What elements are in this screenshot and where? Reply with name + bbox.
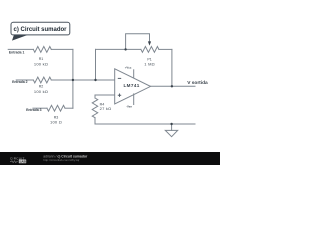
svg-text:V sortida: V sortida [187, 80, 208, 86]
wire vertical R1-bus-R3 [72, 49, 74, 108]
P1 wiper arrow [148, 41, 151, 45]
wire P1 right to corner [159, 48, 172, 50]
svg-text:27 kΩ: 27 kΩ [100, 106, 112, 111]
ground symbol [165, 130, 177, 136]
wire bus to op-amp minus input [51, 79, 114, 81]
node ground junction [170, 123, 172, 125]
footer logo zigzag [10, 161, 18, 163]
wire feedback riser [95, 49, 97, 80]
resistor R2 [33, 77, 51, 83]
svg-text:c) Circuit sumador: c) Circuit sumador [14, 27, 68, 33]
footer logo LAB [19, 160, 26, 164]
node P1 loop junction [124, 48, 126, 50]
svg-text:http://circuitlab.com/c8iy1qr: http://circuitlab.com/c8iy1qr [43, 158, 79, 162]
svg-text:1 MΩ: 1 MΩ [144, 62, 155, 67]
wire op-amp plus input [95, 94, 115, 96]
wire R4 bottom stub [94, 118, 96, 124]
op-amp U1 triangle [115, 69, 151, 104]
svg-text:LM741: LM741 [123, 83, 139, 88]
node output-feedback junction [171, 85, 173, 87]
wire R4 top stub [94, 95, 96, 98]
wire feedback down to output [171, 49, 173, 86]
op-amp plus pin glyph [118, 94, 121, 97]
resistor R1 [33, 47, 51, 53]
node R1-bus junction [72, 79, 74, 81]
wire output [151, 85, 196, 87]
svg-text:-Vee: -Vee [126, 105, 132, 109]
svg-text:Entrada 1: Entrada 1 [9, 51, 25, 55]
svg-text:LAB: LAB [20, 160, 27, 164]
footer bar [0, 152, 220, 165]
wire entrada3 lead [33, 107, 47, 109]
svg-text:100 kΩ: 100 kΩ [34, 61, 48, 66]
svg-text:100 kΩ: 100 kΩ [34, 89, 48, 94]
callout box c) Circuit sumador [11, 22, 70, 35]
wire R1 right to corner [51, 48, 73, 50]
op-amp +Vcc stub [133, 70, 135, 78]
ground stub [171, 124, 173, 130]
svg-text:Entrada 3: Entrada 3 [26, 108, 42, 112]
resistor R3 [47, 105, 65, 111]
wire P1 wiper loop [126, 34, 150, 50]
wire entrada1 lead [8, 48, 33, 50]
node feedback-bus junction [94, 79, 96, 81]
wire R3 row right [65, 107, 73, 109]
wire top feedback row left [96, 48, 141, 50]
resistor R4 [92, 98, 98, 118]
callout tail [12, 35, 29, 41]
wire entrada2 lead [16, 79, 33, 81]
svg-text:Entrada 2: Entrada 2 [12, 80, 28, 84]
op-amp minus pin glyph [118, 77, 121, 79]
op-amp -Vee stub [133, 94, 135, 105]
svg-text:100 Ω: 100 Ω [50, 120, 62, 125]
svg-text:+Vcc: +Vcc [125, 65, 132, 69]
potentiometer P1 body [141, 47, 159, 53]
wire bottom rail [95, 123, 195, 125]
